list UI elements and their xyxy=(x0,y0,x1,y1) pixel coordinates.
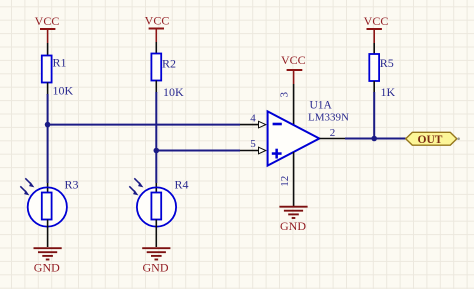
wire VCC to R1 xyxy=(47,43,49,56)
svg-text:R3: R3 xyxy=(65,178,79,192)
pin 3 (V+) xyxy=(293,84,295,125)
power port VCC (above R1) xyxy=(35,14,60,43)
svg-text:4: 4 xyxy=(250,113,256,125)
svg-text:10K: 10K xyxy=(163,85,184,99)
node A (junction R1/R3/pin4) xyxy=(45,122,51,128)
wire VCC to R5 xyxy=(373,43,375,54)
svg-text:U1A: U1A xyxy=(310,100,333,112)
power port VCC (above R5) xyxy=(364,14,389,43)
port OUT xyxy=(406,132,460,146)
svg-text:10K: 10K xyxy=(53,84,74,98)
resistor R5 xyxy=(369,54,394,81)
svg-text:R1: R1 xyxy=(53,56,67,70)
svg-text:R4: R4 xyxy=(175,178,189,192)
ground (under R3) xyxy=(34,248,62,274)
svg-text:VCC: VCC xyxy=(364,14,389,28)
wire node A down to R3 xyxy=(47,125,49,183)
svg-text:2: 2 xyxy=(330,127,336,139)
svg-text:VCC: VCC xyxy=(281,53,306,67)
photoresistor R4 xyxy=(129,178,176,227)
power port VCC (above R2) xyxy=(145,14,170,43)
wire node B down to R4 xyxy=(155,151,157,184)
wire node A to pin 4 xyxy=(48,124,240,126)
svg-text:VCC: VCC xyxy=(145,14,170,28)
ground (under op-amp) xyxy=(279,207,307,233)
pin 12 (V-) xyxy=(293,152,295,207)
svg-text:1K: 1K xyxy=(381,85,396,99)
pin 2 output lead xyxy=(319,138,346,140)
svg-text:5: 5 xyxy=(250,138,256,150)
power port VCC (above op-amp pin 3) xyxy=(281,53,306,84)
resistor R2 xyxy=(151,54,176,81)
svg-text:R2: R2 xyxy=(162,57,176,71)
svg-text:OUT: OUT xyxy=(418,134,443,146)
ground (under R4) xyxy=(142,248,170,274)
wire R4 to GND xyxy=(155,227,157,247)
resistor R1 xyxy=(42,56,67,83)
svg-text:3: 3 xyxy=(278,92,290,98)
pin 5 lead and arrow xyxy=(240,138,266,154)
wire node B to pin 5 xyxy=(156,150,240,152)
svg-text:R5: R5 xyxy=(380,56,394,70)
svg-text:GND: GND xyxy=(280,219,306,233)
photoresistor R3 xyxy=(20,178,67,227)
svg-text:VCC: VCC xyxy=(35,14,60,28)
svg-text:GND: GND xyxy=(143,261,169,275)
wire pin 2 to port OUT xyxy=(345,138,406,140)
pin 4 lead and arrow xyxy=(240,113,266,128)
svg-text:GND: GND xyxy=(34,261,60,275)
wire R1 to node A xyxy=(47,83,49,96)
node C (junction R5/output) xyxy=(371,136,377,142)
wire R5 to node C xyxy=(373,81,375,93)
node B (junction R2/R4/pin5) xyxy=(154,148,160,154)
op-amp U1 triangle xyxy=(268,111,320,165)
wire R2 down across wire to node B xyxy=(155,81,157,94)
wire VCC to R2 xyxy=(155,42,157,54)
wire R3 to GND xyxy=(47,227,49,247)
svg-text:12: 12 xyxy=(279,176,291,187)
svg-text:LM339N: LM339N xyxy=(308,112,349,124)
